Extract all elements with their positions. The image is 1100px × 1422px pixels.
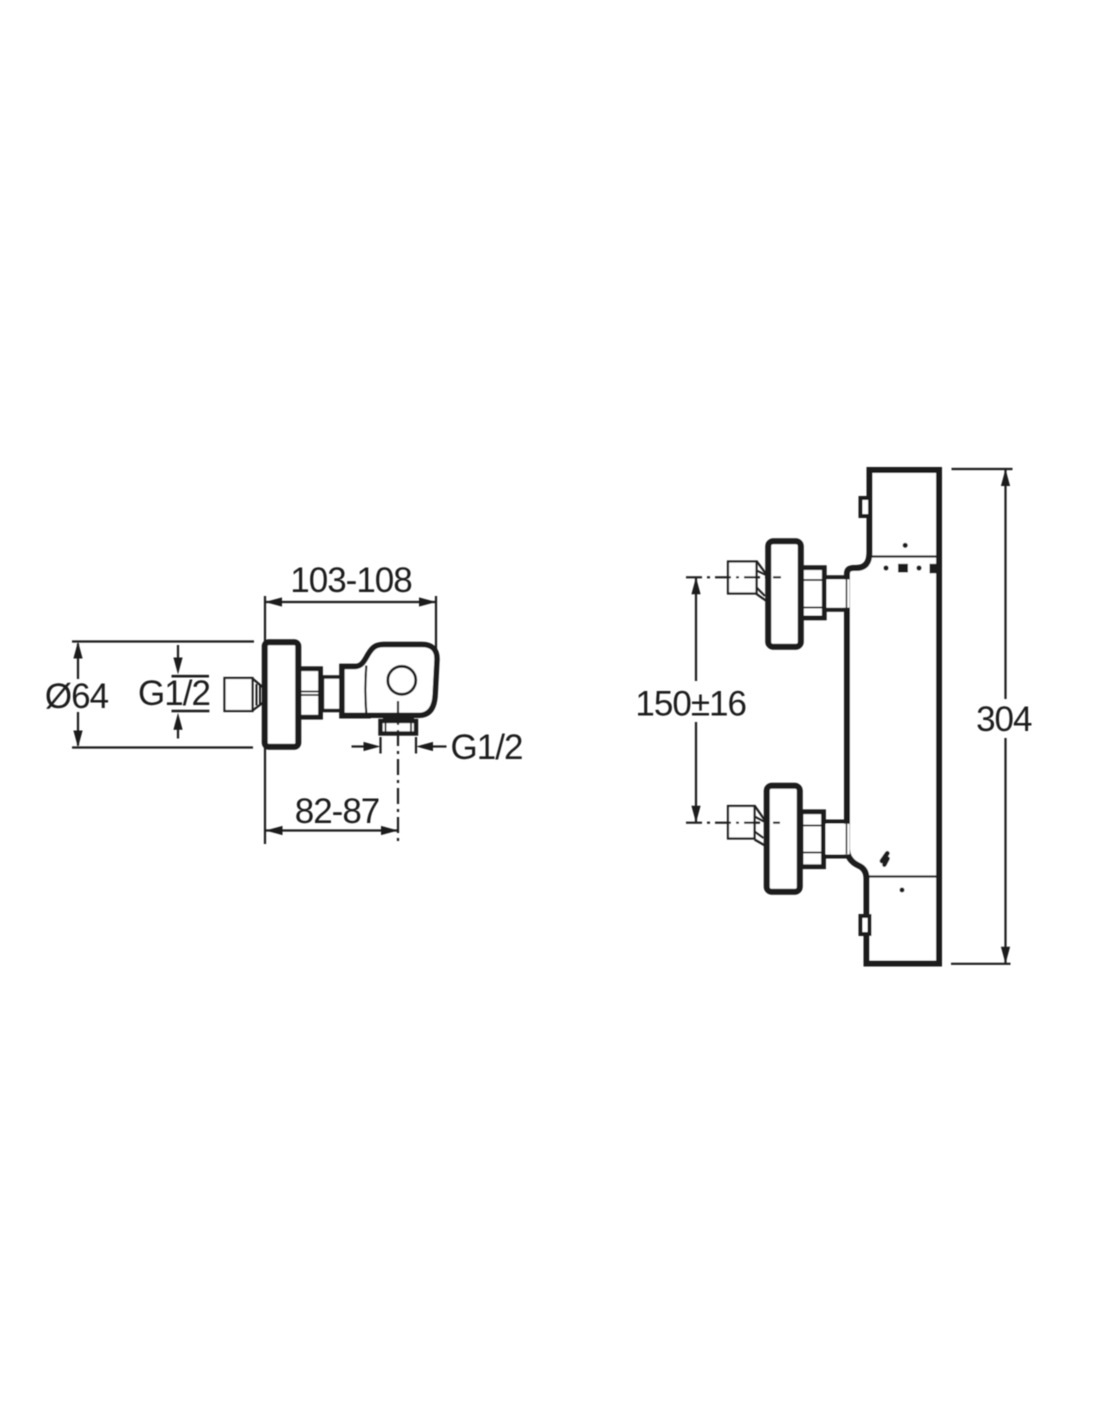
arrowhead down of Ø64 (73, 731, 82, 748)
arrowhead left of 82-87 (266, 826, 283, 835)
svg-text:G1/2: G1/2 (451, 728, 523, 767)
connecting tube (323, 677, 342, 711)
outlet hex facets (385, 722, 387, 735)
top nut waist lines (802, 579, 825, 581)
top inlet centre line (dash-dot) (686, 576, 781, 578)
bottom mounting nut (801, 812, 824, 867)
neck/head separation line (364, 666, 367, 714)
indicator dot 2 (916, 565, 921, 570)
flange edge through bottom nut (800, 814, 802, 865)
cone taper to flange (left view) (253, 679, 263, 688)
top wall flange (768, 541, 801, 647)
extension line left (103-108 / 82-87) (264, 596, 266, 844)
top cap separation line (871, 555, 937, 557)
valve head body (342, 645, 437, 716)
dimension line Ø64 lower shaft (77, 712, 79, 746)
outlet centre line (dash-dot) (397, 701, 399, 845)
top inlet square fitting (728, 562, 757, 594)
inlet square fitting (left view) (225, 678, 253, 711)
arrowhead right of 82-87 (381, 826, 398, 835)
dimension line 150±16 lower shaft (695, 722, 697, 823)
flange edge through top nut (800, 570, 802, 620)
G1/2 thread overline (172, 675, 210, 678)
outlet top line (383, 717, 414, 719)
bottom connector stub (826, 824, 850, 855)
arrowhead right of 103-108 (419, 597, 436, 606)
arrowhead up of Ø64 (73, 642, 82, 659)
valve neck (342, 667, 368, 716)
G1/2 lower arrowhead (up) (173, 713, 182, 730)
extension line top of 304 (952, 468, 1013, 470)
flow arrow glyph (882, 853, 887, 861)
svg-text:103-108: 103-108 (290, 561, 411, 600)
arrowhead up of 150±16 (691, 577, 700, 594)
bottom cone taper (755, 806, 766, 821)
extension line bottom of Ø64 (72, 746, 253, 748)
dimension line 82-87 (266, 829, 399, 831)
bottom cap screw dot (900, 888, 905, 893)
bottom cap tab (861, 916, 870, 934)
dimension line 304 lower shaft (1004, 738, 1006, 964)
top cap tab (861, 498, 871, 516)
top cap screw dot (903, 543, 908, 548)
top connector stub (827, 579, 850, 608)
svg-text:G1/2: G1/2 (138, 674, 210, 713)
G1/2 upper arrowhead (down) (173, 658, 182, 675)
G1/2 outlet left arrow (352, 745, 367, 747)
arrowhead down of 304 (1001, 947, 1010, 964)
arrowhead left of 103-108 (265, 597, 282, 606)
dimension line 150±16 upper shaft (695, 577, 697, 681)
indicator square 1 (898, 564, 908, 573)
nut waist lines (300, 691, 321, 693)
bottom nut waist lines (801, 825, 824, 827)
G1/2 upper arrow shaft (177, 645, 179, 659)
G1/2 thread underline (172, 710, 210, 713)
wall flange (left view) (265, 642, 299, 747)
svg-text:150±16: 150±16 (635, 685, 746, 724)
temperature knob circle (388, 666, 416, 694)
bottom cap separation line (869, 875, 937, 877)
indicator dot row: dot 1 (883, 565, 888, 570)
arrowhead down of 150±16 (691, 806, 700, 823)
mounting nut (left view) (299, 669, 321, 717)
svg-text:304: 304 (976, 700, 1032, 739)
G1/2 lower arrow shaft (177, 729, 179, 739)
top cone taper (757, 561, 767, 575)
bottom wall flange (767, 786, 800, 892)
dimension line 304 upper shaft (1004, 469, 1006, 699)
arrowhead up of 304 (1001, 469, 1010, 486)
G1/2 outlet right arrow (431, 745, 447, 747)
svg-text:82-87: 82-87 (295, 792, 380, 831)
dimension line Ø64 upper shaft (77, 644, 79, 680)
dimension line 103-108 (265, 601, 436, 603)
indicator square 2 (930, 564, 939, 574)
svg-text:Ø64: Ø64 (45, 677, 109, 716)
top mounting nut (802, 568, 825, 618)
extension line bottom of 304 (951, 963, 1011, 965)
extension line top of Ø64 (72, 640, 254, 642)
mixer bar silhouette (847, 470, 939, 964)
bottom inlet centre line (dash-dot) (686, 822, 780, 824)
bottom inlet square fitting (728, 806, 755, 839)
outlet extension lines (379, 737, 381, 754)
outlet hex nipple (381, 721, 417, 734)
extension line right (103-108) (435, 596, 437, 657)
